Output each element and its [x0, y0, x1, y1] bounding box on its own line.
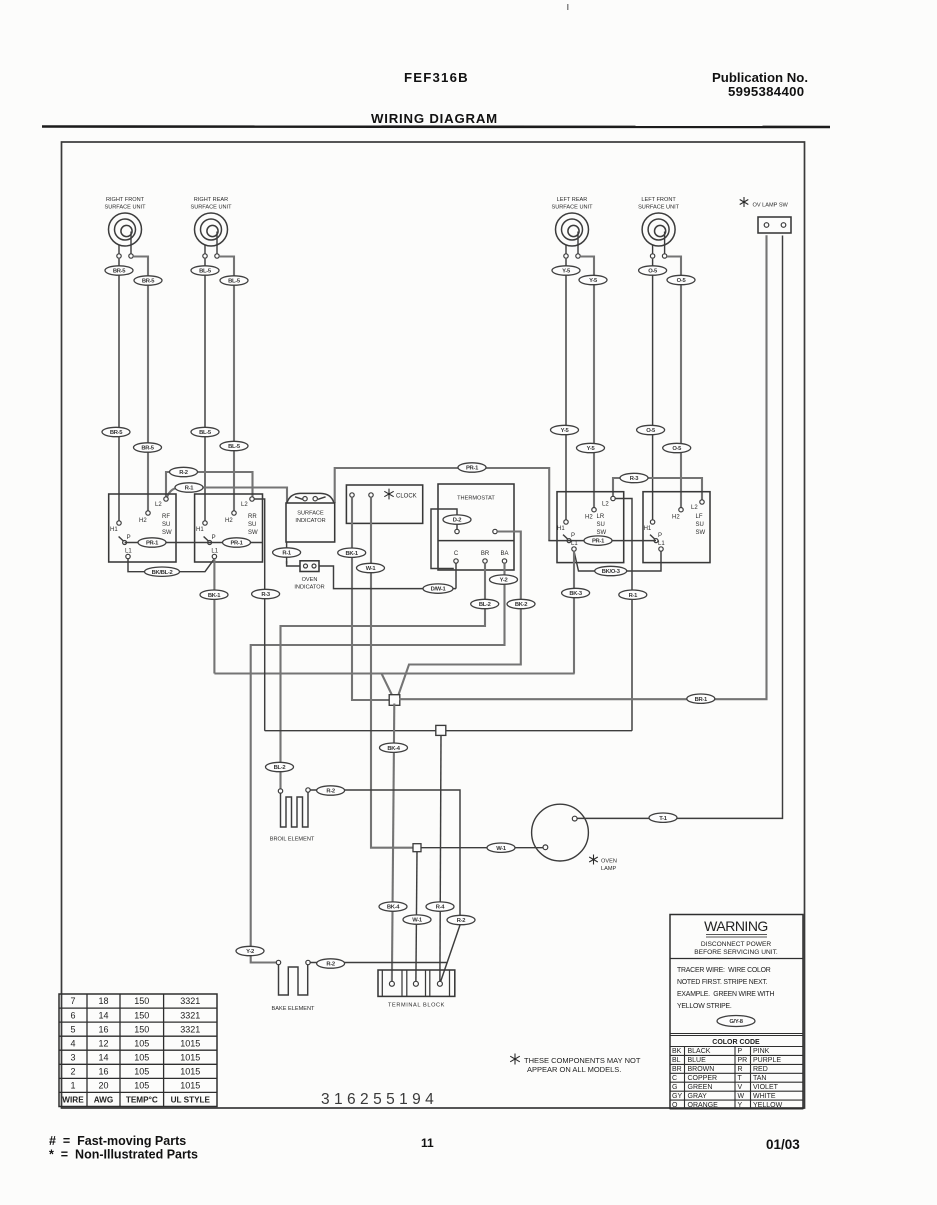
svg-text:L2: L2 — [691, 505, 698, 511]
svg-text:WIRE: WIRE — [62, 1096, 84, 1105]
terminal LEFT FRONT lead 1 — [650, 254, 654, 258]
svg-text:BR: BR — [481, 551, 490, 557]
svg-text:Y-2: Y-2 — [246, 949, 254, 955]
svg-text:C: C — [454, 551, 459, 557]
svg-text:GY: GY — [672, 1093, 682, 1100]
wire label BL-5 — [220, 441, 248, 450]
wire T-1 oven lamp to lamp switch — [577, 236, 782, 819]
svg-text:BAKE ELEMENT: BAKE ELEMENT — [272, 1006, 315, 1012]
svg-text:W-1: W-1 — [366, 566, 377, 572]
wire D/W-1 oven indicator to thermostat C — [319, 566, 456, 589]
svg-text:BL-5: BL-5 — [228, 444, 241, 450]
wire label BK-4 — [380, 743, 408, 752]
svg-text:SW: SW — [696, 530, 706, 536]
wire BL-5 H2 right rear — [219, 257, 234, 511]
wire R bus — [265, 730, 632, 732]
resistor BROIL ELEMENT — [270, 792, 315, 842]
wire BK-1 clock to splice — [352, 497, 390, 700]
terminal surface indicator 1 — [303, 497, 307, 501]
svg-text:105: 105 — [134, 1053, 149, 1063]
svg-text:L1: L1 — [125, 549, 132, 555]
svg-text:H2: H2 — [225, 518, 233, 524]
wire BK-1 L1 RR down — [213, 559, 215, 674]
wire BK/O-3 L1 LF to L1 LR — [574, 551, 661, 571]
terminal broil element left — [278, 789, 282, 793]
lamp OVEN LAMP — [532, 804, 617, 872]
svg-text:H1: H1 — [196, 527, 204, 533]
svg-text:BR: BR — [672, 1066, 682, 1073]
svg-text:BK-4: BK-4 — [387, 905, 400, 911]
svg-text:1015: 1015 — [180, 1067, 200, 1077]
svg-text:SW: SW — [597, 530, 607, 536]
svg-text:BK/O-3: BK/O-3 — [602, 569, 621, 575]
terminal thermostat C — [454, 559, 458, 563]
wire PR-1 surface indicator to P bus — [335, 468, 550, 541]
terminal surface indicator 2 — [313, 497, 317, 501]
svg-text:R-2: R-2 — [326, 962, 335, 968]
terminal thermostat upper right contact — [493, 529, 497, 533]
svg-text:P: P — [212, 535, 216, 541]
svg-text:PR-1: PR-1 — [592, 539, 605, 545]
svg-text:WARNING: WARNING — [704, 918, 768, 934]
wire R-1 L2 LR down — [615, 499, 632, 731]
svg-text:BR-5: BR-5 — [142, 279, 155, 285]
svg-text:INDICATOR: INDICATOR — [295, 518, 325, 524]
svg-text:Y-5: Y-5 — [587, 446, 596, 452]
terminal terminal block 1 — [389, 981, 394, 986]
wire label BK-3 — [562, 588, 590, 597]
svg-text:BK: BK — [672, 1048, 682, 1055]
wire label BK-1 — [338, 548, 366, 557]
wire label R-2 — [317, 959, 345, 968]
wire thermostat D-2 stub — [456, 525, 458, 530]
svg-text:CLOCK: CLOCK — [396, 494, 417, 500]
svg-text:LEFT FRONT: LEFT FRONT — [641, 197, 676, 203]
wire label R-2 — [170, 467, 198, 476]
terminal bake element right — [306, 960, 310, 964]
surface unit LEFT REAR — [551, 197, 593, 254]
svg-text:PR-1: PR-1 — [466, 466, 479, 472]
svg-text:H2: H2 — [585, 515, 593, 521]
svg-text:RIGHT FRONT: RIGHT FRONT — [106, 197, 145, 203]
svg-text:W-1: W-1 — [412, 918, 423, 924]
wire BR-5 H2 right front — [133, 257, 148, 511]
svg-text:BL: BL — [672, 1057, 681, 1064]
svg-text:LEFT REAR: LEFT REAR — [557, 197, 588, 203]
terminal terminal block 2 — [413, 981, 418, 986]
svg-text:WHITE: WHITE — [753, 1093, 776, 1100]
svg-text:GREEN: GREEN — [688, 1084, 713, 1091]
svg-text:OVEN: OVEN — [601, 859, 617, 865]
svg-text:H2: H2 — [139, 518, 147, 524]
svg-text:T: T — [738, 1075, 743, 1082]
wire BK-4 splice to terminal block — [392, 704, 394, 982]
wire label Y-2 — [490, 575, 518, 584]
svg-text:P: P — [571, 533, 575, 539]
wire label PR-1 — [138, 538, 166, 547]
svg-text:AWG: AWG — [94, 1096, 114, 1105]
svg-text:BLACK: BLACK — [688, 1048, 711, 1055]
wire BK-2 thermostat to splice — [399, 532, 521, 695]
wire Y-2 thermostat BA to bake element — [251, 563, 505, 962]
svg-text:L2: L2 — [155, 502, 162, 508]
svg-text:BK-3: BK-3 — [569, 591, 582, 597]
svg-text:Y-5: Y-5 — [562, 269, 571, 275]
svg-text:SW: SW — [248, 530, 258, 536]
svg-text:SU: SU — [248, 522, 256, 528]
svg-text:RR: RR — [248, 514, 257, 520]
note these components may not appear — [510, 1054, 641, 1075]
wire label W-1 — [403, 915, 431, 924]
svg-text:VIOLET: VIOLET — [753, 1084, 779, 1091]
svg-text:1015: 1015 — [180, 1053, 200, 1063]
terminal RIGHT FRONT lead 1 — [117, 254, 121, 258]
terminal clock 1 — [350, 493, 354, 497]
terminal RF SU SW L2 — [164, 497, 168, 501]
wire label BR-5 — [105, 266, 133, 275]
terminal clock 2 — [369, 493, 373, 497]
svg-text:12: 12 — [98, 1038, 108, 1048]
svg-text:L1: L1 — [658, 541, 665, 547]
svg-text:COPPER: COPPER — [688, 1075, 718, 1082]
svg-text:SU: SU — [597, 522, 605, 528]
svg-text:BLUE: BLUE — [688, 1057, 707, 1064]
wire label PR-1 — [584, 536, 612, 545]
wire label PR-1 — [458, 463, 486, 472]
wire R-1 L2 RF to surface indicator — [167, 488, 287, 504]
terminal LR SU SW L1 — [572, 547, 576, 551]
terminal LF SU SW P — [654, 539, 658, 543]
switch LR SU SW — [557, 492, 624, 563]
terminal thermostat BA — [502, 559, 506, 563]
wire W-1 junction to terminal block — [416, 852, 417, 981]
svg-text:BR-5: BR-5 — [110, 430, 123, 436]
svg-text:TAN: TAN — [753, 1075, 766, 1082]
wire label R-2 — [317, 786, 345, 795]
svg-text:T-1: T-1 — [659, 816, 668, 822]
wire label O-5 — [663, 443, 691, 452]
terminal RF SU SW L1 — [126, 554, 130, 558]
wire oven indicator left lead — [287, 561, 300, 566]
surface unit RIGHT REAR — [190, 197, 232, 254]
wire label G/Y-8 — [717, 1016, 755, 1027]
wire thermostat C lead down — [455, 563, 457, 588]
svg-text:SU: SU — [162, 522, 170, 528]
terminal LR SU SW H1 — [564, 520, 568, 524]
terminal thermostat D-2 contact — [455, 529, 459, 533]
wire R-2 broil element to terminal block — [310, 790, 460, 981]
svg-text:5: 5 — [70, 1024, 75, 1034]
svg-text:SURFACE UNIT: SURFACE UNIT — [638, 205, 680, 211]
svg-text:L2: L2 — [241, 502, 248, 508]
svg-text:R-2: R-2 — [326, 789, 335, 795]
wire label D-2 — [443, 515, 471, 524]
wire BK-3 L1 LR down — [573, 551, 575, 673]
svg-text:OV LAMP SW: OV LAMP SW — [753, 203, 789, 209]
svg-text:R-3: R-3 — [261, 592, 271, 598]
svg-text:105: 105 — [134, 1038, 149, 1048]
terminal thermostat BR — [483, 559, 487, 563]
wire PR-1 P bus left — [125, 542, 263, 544]
svg-text:G: G — [672, 1084, 677, 1091]
svg-text:SU: SU — [696, 522, 704, 528]
wire label Y-5 — [577, 443, 605, 452]
svg-text:6: 6 — [70, 1010, 75, 1020]
svg-text:BR-5: BR-5 — [113, 269, 126, 275]
svg-text:4: 4 — [70, 1038, 75, 1048]
svg-text:THERMOSTAT: THERMOSTAT — [457, 496, 495, 502]
svg-text:O-5: O-5 — [677, 278, 687, 284]
terminal LR SU SW H2 — [592, 508, 596, 512]
wire label BR-5 — [134, 276, 162, 285]
thermostat — [438, 484, 514, 570]
svg-text:LF: LF — [696, 514, 703, 520]
terminal OV LAMP SW 1 — [764, 223, 769, 228]
terminal terminal block 3 — [437, 981, 442, 986]
oven lamp switch OV LAMP SW — [740, 197, 791, 233]
svg-text:3321: 3321 — [180, 996, 200, 1006]
svg-text:Publication No.: Publication No. — [712, 70, 808, 85]
svg-text:G/Y-8: G/Y-8 — [729, 1019, 743, 1025]
svg-text:16: 16 — [98, 1024, 108, 1034]
svg-text:16: 16 — [98, 1067, 108, 1077]
svg-text:EXAMPLE. GREEN WIRE WITH: EXAMPLE. GREEN WIRE WITH — [677, 991, 774, 998]
wire label R-3 — [620, 473, 648, 482]
wire label Y-5 — [551, 425, 579, 434]
svg-text:L1: L1 — [571, 541, 578, 547]
svg-text:BROWN: BROWN — [688, 1066, 715, 1073]
wire R-2 bake element to terminal block — [310, 962, 446, 964]
terminal LEFT REAR lead 1 — [564, 254, 568, 258]
svg-text:Y-2: Y-2 — [500, 578, 508, 584]
svg-text:TRACER WIRE: WIRE COLOR: TRACER WIRE: WIRE COLOR — [677, 967, 771, 974]
svg-text:D-2: D-2 — [453, 518, 462, 524]
svg-text:RIGHT REAR: RIGHT REAR — [194, 197, 228, 203]
svg-text:3321: 3321 — [180, 1024, 200, 1034]
wire label Y-5 — [579, 275, 607, 284]
wire label R-1 — [175, 483, 203, 492]
wire label BK/BL-2 — [145, 567, 180, 576]
splice junction square 2 — [436, 725, 446, 735]
svg-text:O: O — [672, 1102, 678, 1109]
terminal oven lamp terminal 1 — [572, 816, 577, 821]
wire label PR-1 — [223, 538, 251, 547]
svg-text:BL-5: BL-5 — [228, 279, 241, 285]
svg-text:R-1: R-1 — [282, 551, 292, 557]
svg-text:SURFACE UNIT: SURFACE UNIT — [190, 205, 232, 211]
svg-text:BL-5: BL-5 — [199, 269, 212, 275]
wire label BL-2 — [266, 762, 294, 771]
wire label BR-5 — [134, 443, 162, 452]
wire O-5 H1 left front — [652, 259, 654, 520]
svg-text:BL-2: BL-2 — [479, 602, 491, 608]
wire BR-1 splice to oven lamp switch — [399, 235, 767, 699]
svg-text:P: P — [127, 535, 131, 541]
svg-text:BEFORE SERVICING UNIT.: BEFORE SERVICING UNIT. — [694, 949, 778, 956]
svg-text:Y: Y — [738, 1102, 743, 1109]
svg-text:DISCONNECT POWER: DISCONNECT POWER — [701, 941, 771, 948]
wire Y-5 H1 left rear — [565, 259, 567, 520]
svg-text:O-5: O-5 — [672, 446, 682, 452]
wire BK bus — [214, 672, 574, 674]
terminal oven indicator 1 — [304, 564, 308, 568]
svg-text:BR-5: BR-5 — [141, 446, 154, 452]
svg-text:150: 150 — [134, 996, 149, 1006]
wire label O-5 — [637, 425, 665, 434]
svg-text:LAMP: LAMP — [601, 866, 617, 872]
svg-text:SW: SW — [162, 530, 172, 536]
svg-text:Y-5: Y-5 — [561, 428, 570, 434]
wire label R-1 — [273, 548, 301, 557]
svg-text:GRAY: GRAY — [688, 1093, 708, 1100]
svg-text:20: 20 — [98, 1081, 108, 1091]
terminal LF SU SW H1 — [650, 520, 654, 524]
surface unit RIGHT FRONT — [104, 197, 146, 254]
terminal RR SU SW H1 — [203, 521, 207, 525]
svg-text:14: 14 — [98, 1053, 108, 1063]
wire label D/W-1 — [423, 584, 453, 593]
svg-text:YELLOW STRIPE.: YELLOW STRIPE. — [677, 1003, 732, 1010]
color code table — [670, 1034, 803, 1110]
svg-text:150: 150 — [134, 1024, 149, 1034]
svg-text:C: C — [672, 1075, 677, 1082]
svg-text:V: V — [738, 1084, 743, 1091]
svg-text:RED: RED — [753, 1066, 768, 1073]
terminal LEFT FRONT lead 2 — [662, 254, 666, 258]
wire label BR-1 — [687, 694, 715, 703]
wire label BL-5 — [220, 276, 248, 285]
svg-text:105: 105 — [134, 1067, 149, 1077]
main border — [62, 142, 805, 1108]
svg-text:2: 2 — [70, 1067, 75, 1077]
wire label BR-5 — [102, 427, 130, 436]
svg-text:PR: PR — [738, 1057, 748, 1064]
svg-text:FEF316B: FEF316B — [404, 70, 469, 85]
svg-text:R-1: R-1 — [629, 593, 639, 599]
svg-text:11: 11 — [421, 1136, 434, 1150]
svg-text:THESE COMPONENTS MAY NOT: THESE COMPONENTS MAY NOT — [524, 1056, 641, 1065]
svg-text:H1: H1 — [644, 526, 652, 532]
svg-text:R-2: R-2 — [457, 918, 466, 924]
wire R-2 L2 RF to L2 RR — [166, 472, 253, 497]
terminal RR SU SW H2 — [232, 511, 236, 515]
wire label BL-2 — [471, 599, 499, 608]
wire label BK-4 — [379, 902, 407, 911]
svg-text:L1: L1 — [211, 549, 218, 555]
svg-text:R-2: R-2 — [179, 470, 188, 476]
terminal LR SU SW P — [567, 539, 571, 543]
svg-text:1015: 1015 — [180, 1038, 200, 1048]
terminal RR SU SW P — [208, 541, 212, 545]
wire R-4 splice 2 to terminal block — [440, 735, 441, 981]
terminal LF SU SW L2 — [700, 500, 704, 504]
wire label R-1 — [619, 590, 647, 599]
svg-text:P: P — [738, 1048, 743, 1055]
wire Y-5 H2 left rear — [580, 257, 594, 508]
wire R-3 L2 LR to L2 LF — [613, 478, 702, 500]
wire W-1 clock to oven lamp junction — [371, 497, 413, 848]
terminal block — [378, 970, 455, 1009]
wire label W-1 — [357, 563, 385, 572]
svg-text:PURPLE: PURPLE — [753, 1057, 781, 1064]
surface unit LEFT FRONT — [638, 197, 680, 254]
svg-text:BL-2: BL-2 — [274, 765, 286, 771]
svg-text:INDICATOR: INDICATOR — [294, 585, 324, 591]
svg-text:TERMINAL BLOCK: TERMINAL BLOCK — [388, 1003, 445, 1009]
wire PR-1 P bus right — [548, 540, 656, 542]
svg-text:ORANGE: ORANGE — [688, 1102, 719, 1109]
terminal RF SU SW H1 — [117, 521, 121, 525]
resistor BAKE ELEMENT — [272, 965, 315, 1012]
svg-text:3: 3 — [70, 1053, 75, 1063]
wire label BK-1 — [200, 590, 228, 599]
svg-text:H1: H1 — [110, 527, 118, 533]
terminal LF SU SW L1 — [659, 547, 663, 551]
warning box — [670, 915, 803, 1109]
svg-text:W-1: W-1 — [496, 846, 507, 852]
svg-text:# = Fast-moving Parts: # = Fast-moving Parts — [49, 1134, 186, 1148]
wire label BL-5 — [191, 427, 219, 436]
svg-text:O-5: O-5 — [646, 428, 656, 434]
svg-text:R-4: R-4 — [436, 905, 446, 911]
svg-text:5995384400: 5995384400 — [728, 84, 804, 99]
wire label BK/O-3 — [595, 566, 627, 575]
svg-text:NOTED FIRST. STRIPE NEXT.: NOTED FIRST. STRIPE NEXT. — [677, 979, 768, 986]
svg-text:BK-4: BK-4 — [387, 746, 400, 752]
terminal RIGHT FRONT lead 2 — [129, 254, 133, 258]
svg-text:105: 105 — [134, 1081, 149, 1091]
wire label R-4 — [426, 902, 454, 911]
terminal oven lamp terminal 2 — [543, 845, 548, 850]
wire label R-3 — [252, 589, 280, 598]
svg-text:W: W — [738, 1093, 745, 1100]
svg-text:BR-1: BR-1 — [695, 697, 708, 703]
svg-text:Y-5: Y-5 — [589, 278, 598, 284]
svg-text:BK-2: BK-2 — [515, 602, 527, 608]
wire label Y-5 — [552, 266, 580, 275]
svg-text:7: 7 — [70, 996, 75, 1006]
wire BL-5 H1 right rear — [204, 259, 206, 521]
terminal RF SU SW H2 — [146, 511, 150, 515]
svg-text:R-3: R-3 — [630, 476, 640, 482]
wire label O-5 — [639, 266, 667, 275]
svg-text:SURFACE UNIT: SURFACE UNIT — [551, 205, 593, 211]
wire thermostat D-2 bracket — [431, 509, 457, 569]
wire label BL-5 — [191, 266, 219, 275]
svg-text:01/03: 01/03 — [766, 1137, 800, 1152]
splice junction square 1 — [389, 695, 400, 706]
wire label W-1 — [487, 843, 515, 852]
svg-text:O-5: O-5 — [648, 269, 658, 275]
terminal RF SU SW P — [123, 541, 127, 545]
svg-text:3321: 3321 — [180, 1010, 200, 1020]
wire BL-2 thermostat BR to broil element — [281, 563, 486, 789]
indicator lamp OVEN INDICATOR — [294, 561, 324, 591]
svg-text:BROIL ELEMENT: BROIL ELEMENT — [270, 837, 315, 843]
wire label R-2 — [447, 915, 475, 924]
svg-text:BL-5: BL-5 — [199, 430, 212, 436]
svg-text:H2: H2 — [672, 515, 680, 521]
svg-text:COLOR CODE: COLOR CODE — [712, 1039, 760, 1046]
svg-text:R: R — [738, 1066, 743, 1073]
wire label T-1 — [649, 813, 677, 822]
svg-text:TEMP°C: TEMP°C — [126, 1096, 158, 1105]
terminal LR SU SW L2 — [611, 496, 615, 500]
title rule — [42, 125, 830, 128]
svg-text:150: 150 — [134, 1010, 149, 1020]
terminal broil element right — [306, 788, 310, 792]
switch LF SU SW — [643, 492, 710, 563]
